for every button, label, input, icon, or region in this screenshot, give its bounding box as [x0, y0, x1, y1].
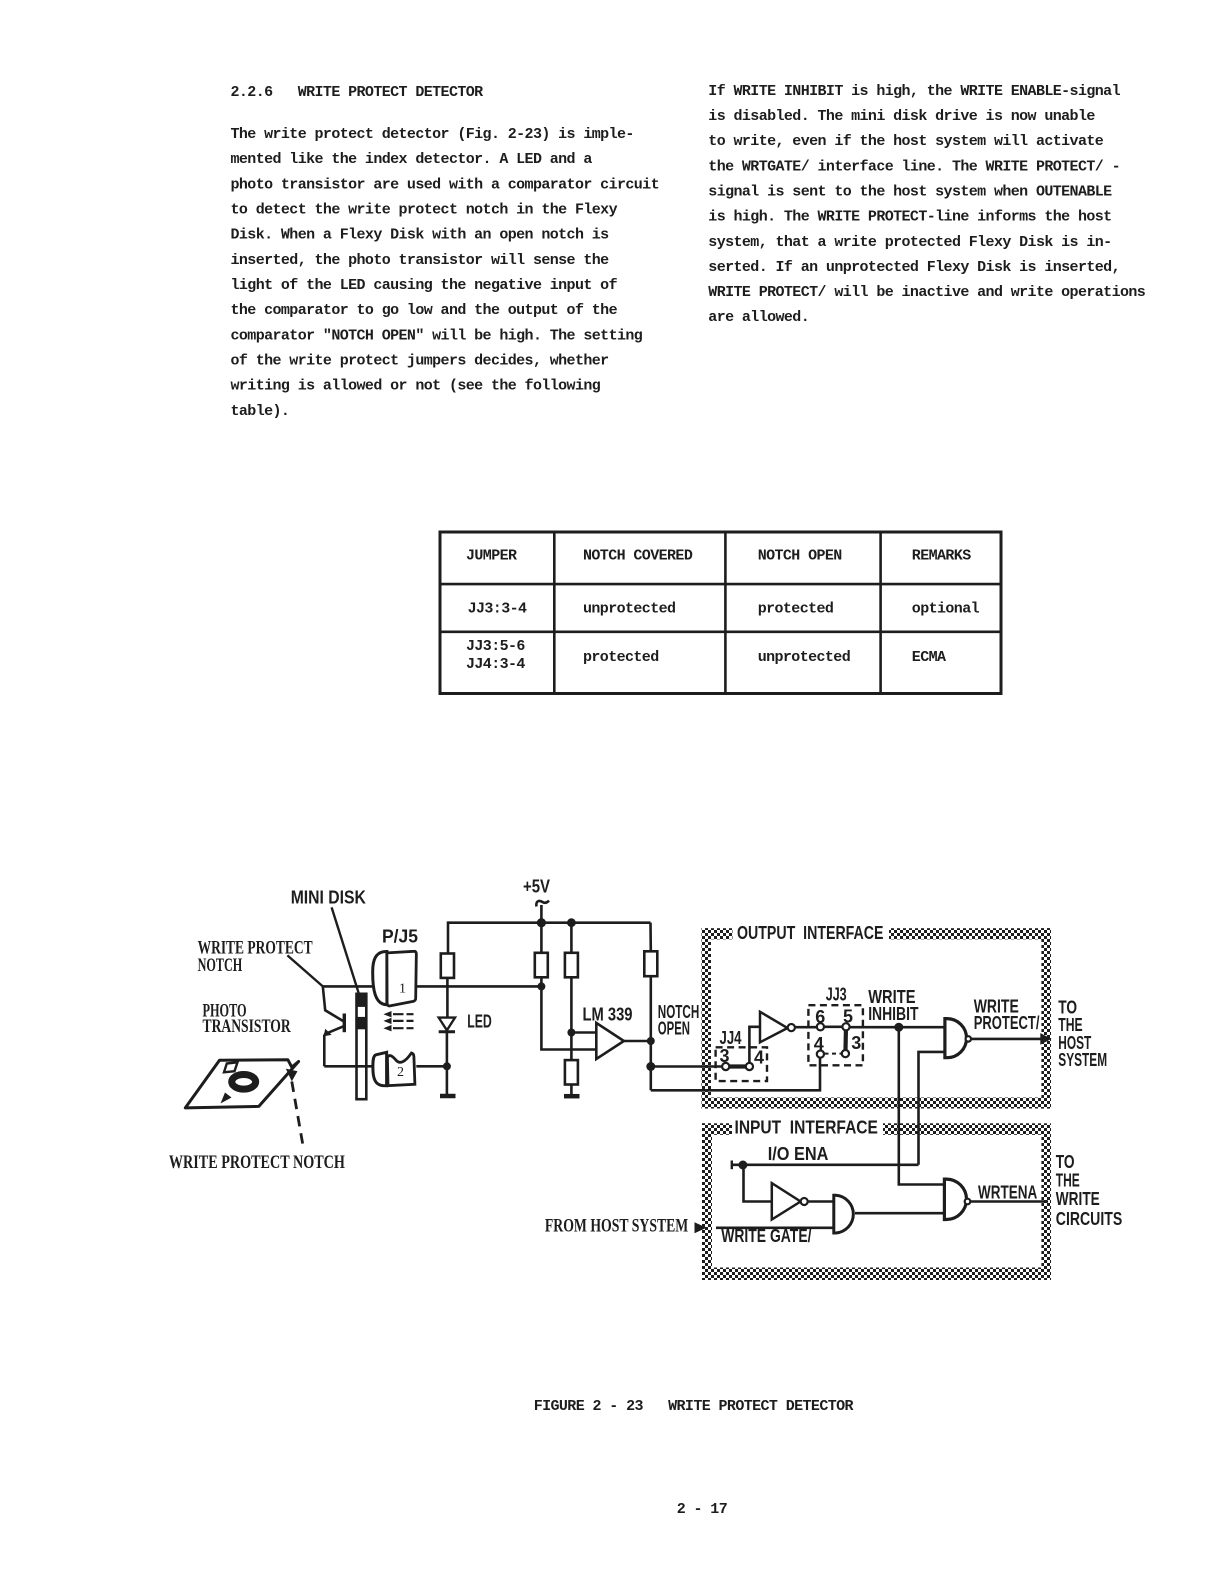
TO THE WRITE CIRCUITS label	[1056, 1152, 1122, 1229]
svg-text:OUTPUT INTERFACE: OUTPUT INTERFACE	[737, 923, 884, 943]
wire WRTENA output	[971, 1200, 1049, 1203]
svg-text:JUMPER: JUMPER	[466, 547, 517, 564]
svg-text:is high. The WRITE PROTECT-lin: is high. The WRITE PROTECT-line informs …	[708, 209, 1111, 226]
FROM HOST SYSTEM arrowhead	[695, 1222, 707, 1233]
wire I/O ENA down to inverter	[744, 1165, 772, 1202]
TO THE HOST SYSTEM label	[1058, 997, 1107, 1070]
left column paragraph	[231, 126, 659, 420]
svg-text:I/O ENA: I/O ENA	[768, 1144, 829, 1164]
svg-text:JJ4: JJ4	[720, 1028, 742, 1048]
svg-text:signal is sent to the host sys: signal is sent to the host system when O…	[708, 184, 1112, 201]
svg-text:REMARKS: REMARKS	[912, 547, 971, 564]
AND gate U5	[834, 1195, 854, 1233]
svg-text:INPUT INTERFACE: INPUT INTERFACE	[735, 1117, 878, 1137]
svg-text:4: 4	[754, 1048, 764, 1068]
svg-text:LED: LED	[467, 1012, 492, 1032]
JJ4 pin 4	[746, 1063, 753, 1070]
svg-text:4: 4	[814, 1034, 824, 1054]
svg-text:is disabled. The mini disk dri: is disabled. The mini disk drive is now …	[708, 108, 1095, 125]
wire inverter to AND gate	[808, 1200, 834, 1203]
disk bar black segment top	[356, 993, 367, 1007]
INPUT INTERFACE box hatched border	[702, 1123, 1051, 1280]
svg-text:JJ3:3-4: JJ3:3-4	[468, 600, 527, 617]
wire WRITE GATE/	[716, 1227, 834, 1230]
wire comparator output	[624, 1040, 651, 1043]
svg-text:The write protect detector (Fi: The write protect detector (Fig. 2-23) i…	[231, 126, 634, 143]
wire +5V rail	[448, 921, 651, 924]
node divider mid	[567, 1029, 575, 1037]
JJ3 pin 4	[817, 1051, 824, 1058]
wire pin6 to pin5	[824, 1026, 842, 1029]
svg-text:P/J5: P/J5	[382, 926, 418, 946]
svg-text:photo transistor are used with: photo transistor are used with a compara…	[231, 176, 659, 193]
svg-text:LM 339: LM 339	[583, 1004, 633, 1024]
wire pin2 right	[416, 1065, 447, 1068]
svg-text:to write, even if the host sys: to write, even if the host system will a…	[708, 133, 1103, 150]
jumper block JJ3	[808, 1005, 863, 1065]
node I/O ENA	[738, 1161, 747, 1170]
JJ4 jumper 3-4 installed	[730, 1064, 746, 1068]
JJ3 pin 6	[817, 1023, 824, 1030]
svg-text:CIRCUITS: CIRCUITS	[1056, 1209, 1122, 1229]
wire signal to comparator minus input	[541, 986, 596, 1049]
svg-text:WRITE PROTECT/ will be inactiv: WRITE PROTECT/ will be inactive and writ…	[708, 284, 1145, 301]
mini disk edge bar	[357, 994, 367, 1099]
table row 1 text	[468, 600, 980, 617]
svg-text:If WRITE INHIBIT is high, the: If WRITE INHIBIT is high, the WRITE ENAB…	[708, 83, 1120, 100]
svg-text:NOTCH OPEN: NOTCH OPEN	[758, 547, 843, 564]
wire inverter to JJ3 pin6	[795, 1026, 817, 1029]
svg-text:3: 3	[851, 1033, 861, 1053]
svg-text:unprotected: unprotected	[758, 649, 850, 666]
node NOTCH OPEN branch	[646, 1062, 655, 1071]
svg-text:WRTENA: WRTENA	[978, 1183, 1037, 1203]
resistor R4 (divider bottom)	[565, 1060, 578, 1084]
wire AND output to WRTENA gate	[855, 1212, 944, 1215]
svg-text:Disk. When a Flexy Disk with a: Disk. When a Flexy Disk with an open not…	[231, 227, 610, 244]
wire WRITE INHIBIT down to WRTENA gate	[899, 1027, 946, 1184]
arrow to host system	[1040, 1033, 1051, 1045]
resistor R5 (output pull-up)	[649, 923, 652, 952]
svg-text:protected: protected	[583, 649, 659, 666]
node rail/R2	[537, 918, 546, 927]
jumper block JJ4	[716, 1047, 767, 1081]
NAND gate U3	[945, 1019, 967, 1058]
NAND gate U6 (WRTENA)	[944, 1179, 966, 1219]
svg-text:2: 2	[397, 1065, 404, 1080]
resistor R2 (pull-up)	[540, 923, 543, 953]
svg-text:optional: optional	[912, 600, 980, 617]
svg-text:2.2.6 WRITE PROTECT DETECTOR: 2.2.6 WRITE PROTECT DETECTOR	[231, 84, 484, 101]
wire NAND output	[971, 1038, 1041, 1041]
JJ3 dashed link 4-3	[825, 1053, 842, 1055]
svg-text:comparator "NOTCH OPEN" will b: comparator "NOTCH OPEN" will be high. Th…	[231, 327, 643, 344]
node pin1/pull-up	[537, 982, 545, 990]
svg-text:JJ3: JJ3	[826, 985, 847, 1005]
svg-text:the WRTGATE/ interface line. T: the WRTGATE/ interface line. The WRITE P…	[708, 158, 1120, 175]
svg-text:table).: table).	[231, 403, 290, 420]
wire pin2 left	[324, 1065, 373, 1068]
svg-text:PROTECT/: PROTECT/	[974, 1013, 1040, 1033]
leader line MINI DISK	[332, 907, 360, 997]
leader line WRITE PROTECT NOTCH (upper)	[287, 955, 322, 986]
wire lower feed to JJ3 pin4	[651, 1058, 820, 1090]
svg-text:2 - 17: 2 - 17	[677, 1501, 727, 1518]
svg-text:writing is allowed or not (see: writing is allowed or not (see the follo…	[231, 378, 601, 395]
svg-text:FROM HOST SYSTEM: FROM HOST SYSTEM	[545, 1216, 688, 1237]
svg-text:WRITE: WRITE	[1056, 1189, 1100, 1209]
svg-text:WRITE GATE/: WRITE GATE/	[721, 1226, 811, 1246]
wire pin5 to NAND input	[850, 1026, 946, 1029]
right column paragraph	[708, 83, 1145, 326]
wire R1 to LED	[446, 978, 449, 1018]
transistor Q1 (photo transistor)	[323, 986, 345, 1036]
wire emitter down	[323, 1035, 326, 1067]
svg-text:FIGURE 2 - 23 WRITE PROTECT: FIGURE 2 - 23 WRITE PROTECT DETECTOR	[534, 1398, 854, 1415]
+5V connection squiggle	[536, 901, 549, 907]
svg-text:NOTCH COVERED: NOTCH COVERED	[583, 547, 693, 564]
svg-text:INHIBIT: INHIBIT	[868, 1004, 918, 1024]
svg-text:1: 1	[399, 982, 406, 997]
svg-text:MINI DISK: MINI DISK	[291, 888, 366, 908]
svg-text:WRITE PROTECT NOTCH: WRITE PROTECT NOTCH	[169, 1152, 345, 1173]
svg-text:+5V: +5V	[523, 876, 550, 896]
wire node to ground	[446, 1066, 449, 1094]
JJ3 jumper 5-3 installed	[843, 1030, 848, 1050]
table row dividers	[440, 584, 1001, 632]
svg-text:light of the LED causing the n: light of the LED causing the negative in…	[231, 277, 618, 294]
svg-text:protected: protected	[758, 600, 834, 617]
table column dividers	[554, 532, 880, 694]
svg-text:THE: THE	[1058, 1015, 1082, 1035]
svg-text:ECMA: ECMA	[912, 649, 946, 666]
svg-text:TO: TO	[1056, 1152, 1075, 1172]
floppy disk pictogram	[185, 1060, 298, 1108]
op-amp U1 LM339 comparator	[596, 1023, 624, 1059]
svg-text:NOTCH: NOTCH	[198, 955, 243, 976]
arrow to write protect notch	[286, 1069, 298, 1082]
table row 2 text	[466, 638, 946, 673]
connector pin 1	[373, 951, 417, 1006]
wire I/O ENA up to NAND input	[919, 1052, 947, 1165]
svg-text:unprotected: unprotected	[583, 600, 675, 617]
svg-text:OPEN: OPEN	[658, 1019, 690, 1039]
svg-text:inserted, the photo transistor: inserted, the photo transistor will sens…	[231, 252, 610, 269]
jumper table outer border	[440, 532, 1001, 694]
disk bar black segment below notch	[356, 1017, 367, 1029]
node LED/pin2 junction	[443, 1062, 451, 1070]
node WRITE INHIBIT	[894, 1023, 903, 1032]
connector pin 2	[373, 1052, 415, 1085]
resistor R1	[441, 954, 454, 978]
svg-text:SYSTEM: SYSTEM	[1058, 1050, 1107, 1070]
svg-text:are allowed.: are allowed.	[708, 309, 809, 326]
light arrows through notch	[383, 1011, 413, 1031]
LED D1	[439, 1018, 455, 1032]
svg-text:system, that a write protected: system, that a write protected Flexy Dis…	[708, 234, 1111, 251]
I/O ENA stub tick	[731, 1161, 733, 1170]
svg-text:mented like the index detector: mented like the index detector. A LED an…	[231, 151, 593, 168]
svg-text:JJ3:5-6: JJ3:5-6	[466, 638, 525, 655]
JJ3 pin 3	[842, 1050, 849, 1057]
inverter U4	[772, 1183, 801, 1219]
ground (LED chain)	[440, 1094, 456, 1099]
wire divider to comparator plus input	[571, 1031, 596, 1034]
OUTPUT INTERFACE box hatched border	[702, 928, 1052, 1108]
wire +5V drop	[540, 905, 543, 923]
wire JJ4 pin4 up to inverter	[749, 1027, 759, 1063]
svg-text:serted. If an unprotected Flex: serted. If an unprotected Flexy Disk is …	[708, 259, 1120, 276]
resistor R3 (divider top)	[570, 923, 573, 953]
node rail/R3	[567, 918, 576, 927]
ground (divider)	[564, 1094, 580, 1099]
svg-text:6: 6	[815, 1007, 825, 1027]
wire LED to node	[446, 1032, 449, 1067]
svg-text:3: 3	[720, 1046, 730, 1066]
svg-text:TRANSISTOR: TRANSISTOR	[203, 1016, 291, 1037]
JJ3 pin 5	[842, 1023, 849, 1030]
svg-text:THE: THE	[1056, 1170, 1080, 1190]
svg-text:of the write protect jumpers d: of the write protect jumpers decides, wh…	[231, 352, 609, 369]
svg-text:the comparator to go low and t: the comparator to go low and the output …	[231, 302, 618, 319]
svg-text:JJ4:3-4: JJ4:3-4	[466, 656, 525, 673]
wire rail to R1	[447, 921, 450, 953]
svg-text:to detect the write protect no: to detect the write protect notch in the…	[231, 202, 618, 219]
table header row text	[466, 547, 971, 564]
node output/R5	[647, 1037, 655, 1045]
svg-text:5: 5	[843, 1006, 853, 1026]
inverter U2	[760, 1012, 788, 1043]
JJ4 pin 3	[722, 1063, 729, 1070]
wire pin1 left	[323, 985, 373, 988]
wire NOTCH OPEN to JJ4 pin3	[651, 1065, 722, 1068]
wire pin1 right to pullup node	[417, 985, 542, 988]
wire I/O ENA	[732, 1164, 919, 1167]
